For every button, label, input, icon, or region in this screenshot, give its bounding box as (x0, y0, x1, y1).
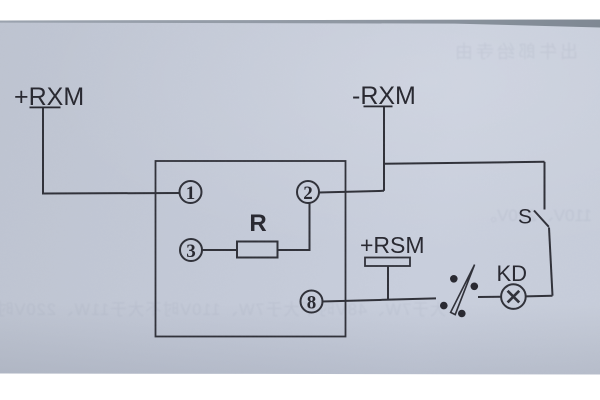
page edge: white strip above (0, 0, 600, 28)
wire right lower vertical (549, 228, 553, 296)
wire pin 8 to link (322, 298, 436, 301)
resistor R (237, 242, 278, 258)
wire node to switch S branch (384, 162, 545, 164)
terminal pin 2 (297, 181, 319, 204)
net label -RXM (352, 82, 416, 110)
switch S blade (534, 211, 549, 227)
wire -RXM vertical (383, 107, 385, 191)
wire lamp to right vertical (526, 295, 553, 298)
wire resistor to pin 2 (278, 203, 310, 250)
wire pin 2 to -RXM junction (319, 191, 384, 193)
device outline box (156, 161, 346, 337)
wire link to lamp KD (478, 296, 501, 298)
test link contacts (440, 275, 478, 317)
net label +RXM (14, 83, 84, 111)
terminal pin 1 (180, 181, 202, 204)
wire +RXM down and right to pin 1 (43, 108, 181, 194)
terminal pin 8 (301, 291, 323, 314)
test link blade (451, 265, 475, 315)
page edge: white strip below (0, 370, 600, 400)
faint bleed-through text from reverse page (452, 38, 578, 64)
wire pin 3 to resistor (202, 249, 238, 251)
wire +RSM tap (387, 266, 389, 300)
wire right upper vertical to switch (544, 162, 546, 210)
lamp KD (501, 284, 526, 309)
terminal +RSM (365, 258, 410, 267)
terminal pin 3 (180, 239, 202, 262)
